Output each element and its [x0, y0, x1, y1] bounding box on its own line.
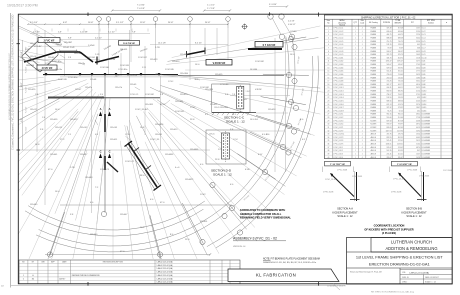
svg-text:13: 13: [328, 67, 330, 69]
svg-text:A: A: [100, 107, 102, 111]
svg-text:1 FVC_D1-B4: 1 FVC_D1-B4: [333, 67, 343, 69]
svg-text:3'-0: 3'-0: [100, 94, 103, 96]
svg-text:16'-8: 16'-8: [140, 127, 144, 129]
svg-text:1/2 AMBUL 1 1/2x0.97: 1/2 AMBUL 1 1/2x0.97: [327, 285, 346, 288]
svg-text:362.3: 362.3: [416, 74, 420, 76]
svg-text:1 FVC_D1-B 3: 1 FVC_D1-B 3: [333, 94, 343, 96]
svg-text:139-013: 139-013: [180, 94, 188, 96]
svg-text:549.07: 549.07: [398, 64, 403, 66]
svg-text:13'-8": 13'-8": [140, 22, 146, 24]
svg-text:2'-5: 2'-5: [68, 134, 71, 136]
svg-text:DATE: 09/18/2017: DATE: 09/18/2017: [425, 276, 439, 279]
svg-text:1 FVC: 1 FVC: [45, 63, 51, 65]
svg-text:424.3: 424.3: [416, 101, 420, 103]
svg-text:1 FVC_D1-P3: 1 FVC_D1-P3: [333, 137, 343, 139]
svg-text:CHKD:: CHKD:: [402, 281, 408, 283]
svg-text:16: 16: [328, 77, 330, 79]
svg-text:235.4: 235.4: [416, 134, 420, 136]
svg-text:V-FCW: V-FCW: [255, 89, 262, 91]
svg-text:10/31/2017 3:00 PM: 10/31/2017 3:00 PM: [7, 4, 38, 8]
svg-text:1: 1: [362, 120, 363, 122]
svg-text:379.1: 379.1: [416, 94, 420, 96]
svg-text:128.15: 128.15: [387, 44, 392, 46]
svg-text:D-B1: D-B1: [422, 61, 426, 63]
svg-text:139-0865: 139-0865: [220, 107, 228, 109]
svg-text:SECTION A-A: SECTION A-A: [337, 208, 353, 211]
svg-text:24'-8": 24'-8": [205, 22, 211, 24]
svg-text:1: 1: [355, 38, 356, 40]
svg-text:10 8 7/8 VIF: 10 8 7/8 VIF: [123, 43, 136, 45]
svg-text:GENERAL CONTRACTOR ON ALL: GENERAL CONTRACTOR ON ALL: [240, 212, 282, 216]
svg-text:SCALE 1 : 12: SCALE 1 : 12: [226, 120, 245, 124]
svg-text:1 FVC_D1-B9: 1 FVC_D1-B9: [333, 84, 343, 86]
svg-text:5'-8": 5'-8": [21, 118, 23, 122]
svg-text:1: 1: [362, 154, 363, 156]
svg-text:807.58: 807.58: [387, 120, 392, 122]
svg-text:KICKER: KICKER: [370, 124, 377, 126]
svg-text:3'-1 1/2": 3'-1 1/2": [108, 32, 115, 34]
svg-text:1'-9 13/32" VIF: 1'-9 13/32" VIF: [397, 164, 412, 166]
svg-text:758.27: 758.27: [398, 94, 403, 96]
svg-text:139-011: 139-011: [110, 139, 118, 141]
svg-text:1: 1: [328, 28, 329, 30]
svg-text:WEIGHT: WEIGHT: [395, 22, 402, 24]
svg-text:ERECTION DRAWING-D1-02-GA1: ERECTION DRAWING-D1-02-GA1: [369, 261, 430, 266]
svg-text:1 FVC_D1-B1: 1 FVC_D1-B1: [333, 57, 343, 59]
svg-text:VERSION: 04: VERSION: 04: [233, 246, 246, 248]
svg-text:34: 34: [328, 137, 330, 139]
svg-text:64.1: 64.1: [417, 44, 420, 46]
svg-text:D-B4: D-B4: [422, 71, 426, 73]
svg-text:929.92: 929.92: [398, 67, 403, 69]
svg-text:962.77: 962.77: [387, 84, 392, 86]
svg-text:1 FC 20/08: 1 FC 20/08: [443, 170, 452, 172]
svg-text:27: 27: [328, 114, 330, 116]
svg-text:39: 39: [328, 154, 330, 156]
svg-text:REVISED PER FIELD DIMENSIONS: REVISED PER FIELD DIMENSIONS: [72, 275, 101, 277]
svg-text:5'-8: 5'-8: [68, 57, 71, 59]
svg-text:337.4: 337.4: [416, 104, 420, 106]
svg-text:1: 1: [355, 61, 356, 63]
svg-text:604.11: 604.11: [387, 87, 392, 89]
svg-text:4: 4: [362, 38, 363, 40]
svg-text:1 FVC_D1-B4: 1 FVC_D1-B4: [135, 109, 148, 111]
svg-text:D-B10: D-B10: [422, 91, 427, 93]
svg-text:4: 4: [362, 127, 363, 129]
svg-text:604.11: 604.11: [398, 87, 403, 89]
svg-text:1'-10 7/32" VIF: 1'-10 7/32" VIF: [330, 164, 345, 166]
svg-text:139-05: 139-05: [63, 47, 70, 49]
svg-text:674.74: 674.74: [387, 104, 392, 106]
svg-text:139-047: 139-047: [120, 214, 128, 216]
svg-text:161.35: 161.35: [398, 150, 403, 152]
svg-text:285.67: 285.67: [387, 157, 392, 159]
svg-text:A: A: [109, 107, 111, 111]
svg-text:1 FVC-B7: 1 FVC-B7: [138, 57, 148, 59]
svg-text:0 7 1/8 VIF: 0 7 1/8 VIF: [263, 43, 276, 47]
svg-text:481.4: 481.4: [416, 84, 420, 86]
svg-text:307.48: 307.48: [387, 28, 392, 30]
svg-text:NOTE: FIT BEARING PLATE PLACEM: NOTE: FIT BEARING PLATE PLACEMENT SEE BE…: [263, 258, 320, 261]
svg-text:5: 5: [328, 41, 329, 43]
svg-text:1 FVC_D1: 1 FVC_D1: [150, 139, 160, 141]
svg-text:D-B9: D-B9: [422, 87, 426, 89]
svg-text:25: 25: [328, 107, 330, 109]
svg-text:1: 1: [23, 275, 24, 277]
svg-text:1095.47: 1095.47: [397, 61, 403, 63]
svg-text:470.76: 470.76: [387, 134, 392, 136]
svg-text:1-1/2x8: 1-1/2x8: [88, 45, 94, 47]
svg-text:DWN: KL: DWN: KL: [402, 277, 409, 279]
svg-text:37: 37: [328, 147, 330, 149]
svg-text:302.1: 302.1: [416, 87, 420, 89]
svg-text:974.02: 974.02: [387, 147, 392, 149]
svg-text:SECTION B-B: SECTION B-B: [406, 208, 422, 211]
svg-text:D-C8: D-C8: [422, 51, 426, 53]
svg-text:1 FVC_D1-P1: 1 FVC_D1-P1: [333, 127, 343, 129]
svg-text:D-B5: D-B5: [422, 74, 426, 76]
svg-text:108.3: 108.3: [416, 77, 420, 79]
svg-text:1095.47: 1095.47: [386, 61, 392, 63]
svg-text:D-B15: D-B15: [422, 107, 427, 109]
svg-text:1 FVC_D1-K1: 1 FVC_D1-K1: [333, 114, 343, 116]
svg-text:444.75: 444.75: [387, 34, 392, 36]
svg-text:139-061: 139-061: [80, 127, 87, 129]
svg-text:SCALE 1 : 12: SCALE 1 : 12: [213, 173, 232, 177]
svg-text:2 FVC VIF: 2 FVC VIF: [44, 41, 55, 43]
svg-text:9: 9: [328, 54, 329, 56]
svg-text:892.95: 892.95: [387, 137, 392, 139]
svg-text:4'-2 1/2": 4'-2 1/2": [95, 38, 102, 40]
svg-text:303.70: 303.70: [387, 57, 392, 59]
svg-text:1: 1: [362, 74, 363, 76]
svg-text:7'-2 1/4": 7'-2 1/4": [26, 106, 28, 113]
svg-text:373.32: 373.32: [387, 107, 392, 109]
svg-text:555.41: 555.41: [387, 71, 392, 73]
svg-text:14: 14: [328, 71, 330, 73]
svg-text:1 FVC_D1-P2: 1 FVC_D1-P2: [333, 130, 343, 132]
svg-text:1: 1: [355, 34, 356, 36]
svg-text:1: 1: [355, 67, 356, 69]
svg-text:5'-3 3/4": 5'-3 3/4": [269, 4, 277, 6]
svg-text:973.97: 973.97: [398, 124, 403, 126]
svg-text:261.2: 261.2: [416, 140, 420, 142]
svg-text:C:\Users\KL\Documents\1 FVC_01: C:\Users\KL\Documents\1 FVC_01-02-GA1 ER…: [12, 14, 15, 150]
svg-text:7'-0 1/8": 7'-0 1/8": [137, 8, 145, 10]
svg-text:1: 1: [355, 127, 356, 129]
svg-text:1'-8: 1'-8: [42, 117, 45, 119]
svg-text:720.26: 720.26: [387, 81, 392, 83]
svg-text:2'-7 3/4": 2'-7 3/4": [33, 32, 40, 34]
svg-text:18: 18: [328, 84, 330, 86]
svg-text:1 FVC_D1-C1: 1 FVC_D1-C1: [333, 28, 343, 30]
svg-text:403.8: 403.8: [416, 120, 420, 122]
svg-text:35: 35: [328, 140, 330, 142]
svg-text:33: 33: [328, 134, 330, 136]
svg-text:10: 10: [328, 57, 330, 59]
svg-text:930.97: 930.97: [387, 51, 392, 53]
svg-text:D-B6: D-B6: [422, 77, 426, 79]
svg-text:1 FVC_D1-B5: 1 FVC_D1-B5: [333, 71, 343, 73]
svg-text:329.73: 329.73: [398, 54, 403, 56]
svg-text:92.25: 92.25: [387, 110, 391, 112]
svg-text:551.66: 551.66: [398, 117, 403, 119]
svg-text:1: 1: [355, 114, 356, 116]
svg-text:KICKER: KICKER: [370, 130, 377, 132]
svg-text:139-06a: 139-06a: [55, 69, 63, 71]
svg-text:487.0: 487.0: [416, 147, 420, 149]
svg-text:329.73: 329.73: [387, 54, 392, 56]
svg-text:1: 1: [355, 84, 356, 86]
svg-text:139-053: 139-053: [268, 109, 276, 111]
svg-text:1 FVC_D16 1: 1 FVC_D16 1: [333, 147, 343, 149]
svg-text:7'-2 1/4": 7'-2 1/4": [26, 46, 28, 53]
svg-text:D1-KHMB8: D1-KHMB8: [422, 154, 430, 156]
svg-text:D1-KHMB8: D1-KHMB8: [422, 127, 430, 129]
svg-text:D1-KHMB8: D1-KHMB8: [422, 120, 430, 122]
svg-text:139-059: 139-059: [55, 127, 62, 129]
svg-text:ASSEMBLY-3 (FVC_D1 - 02: ASSEMBLY-3 (FVC_D1 - 02: [233, 237, 277, 241]
svg-text:D-B2: D-B2: [422, 64, 426, 66]
svg-text:1033.01: 1033.01: [386, 144, 392, 146]
svg-text:8'-0 1/4": 8'-0 1/4": [195, 43, 202, 45]
svg-text:7'-8": 7'-8": [132, 32, 136, 34]
svg-text:1: 1: [362, 81, 363, 83]
svg-text:1: 1: [355, 71, 356, 73]
svg-text:1: 1: [362, 140, 363, 142]
svg-text:D-C10: D-C10: [422, 57, 427, 59]
svg-text:7'-2 1/4": 7'-2 1/4": [26, 126, 28, 133]
svg-text:830.90: 830.90: [387, 91, 392, 93]
svg-text:1: 1: [355, 144, 356, 146]
svg-text:1: 1: [355, 28, 356, 30]
svg-text:1: 1: [362, 91, 363, 93]
svg-text:46.1: 46.1: [417, 110, 420, 112]
svg-text:1: 1: [362, 61, 363, 63]
svg-text:D-C4: D-C4: [422, 38, 426, 40]
svg-text:1 FVC_D1-K1: 1 FVC_D1-K1: [325, 179, 336, 181]
svg-text:2: 2: [328, 31, 329, 33]
svg-text:D-C7: D-C7: [422, 48, 426, 50]
svg-text:139-033: 139-033: [172, 61, 180, 63]
svg-text:38: 38: [328, 150, 330, 152]
svg-text:1 FVC_D16 4: 1 FVC_D16 4: [333, 157, 343, 159]
svg-text:9'-8": 9'-8": [68, 38, 72, 40]
svg-text:222.4: 222.4: [416, 34, 420, 36]
svg-text:SCALE 1 : 12: SCALE 1 : 12: [337, 215, 353, 218]
svg-text:16'-8": 16'-8": [88, 22, 94, 24]
svg-text:1 FVC-C2: 1 FVC-C2: [125, 161, 135, 163]
svg-text:139-0851: 139-0851: [155, 124, 164, 126]
svg-text:4: 4: [362, 87, 363, 89]
svg-text:1017.94: 1017.94: [386, 130, 392, 132]
svg-text:4: 4: [362, 77, 363, 79]
svg-text:1 FVC_D1-B 6: 1 FVC_D1-B 6: [333, 104, 343, 106]
svg-text:139-0847: 139-0847: [64, 42, 72, 44]
svg-text:522.41: 522.41: [387, 140, 392, 142]
svg-text:LUTHERAN CHURCH: LUTHERAN CHURCH: [391, 240, 432, 245]
svg-text:10'-5 1/8": 10'-5 1/8": [158, 43, 166, 45]
svg-text:6: 6: [328, 44, 329, 46]
svg-text:1 FVC_D1-B 5: 1 FVC_D1-B 5: [333, 101, 343, 103]
svg-text:73.69: 73.69: [387, 48, 391, 50]
svg-text:1: 1: [362, 134, 363, 136]
svg-text:1 FVC_D1-B 8: 1 FVC_D1-B 8: [333, 110, 343, 112]
svg-text:1 FVC-B2: 1 FVC-B2: [145, 94, 155, 96]
svg-text:1 FVC_D1-C2: 1 FVC_D1-C2: [333, 31, 343, 33]
svg-text:688.08: 688.08: [398, 38, 403, 40]
svg-text:1 FVC-B4: 1 FVC-B4: [86, 57, 96, 59]
svg-text:1 FVC_D16 3: 1 FVC_D16 3: [333, 154, 343, 156]
svg-text:1: 1: [362, 130, 363, 132]
svg-text:2'-5 1/4": 2'-5 1/4": [30, 22, 38, 24]
svg-text:1 FVC_D1-C5: 1 FVC_D1-C5: [333, 41, 343, 43]
svg-text:1 FVC_D1-K2: 1 FVC_D1-K2: [333, 117, 343, 119]
svg-text:11: 11: [328, 61, 330, 63]
svg-text:1: 1: [362, 114, 363, 116]
svg-text:277.7: 277.7: [416, 71, 420, 73]
svg-text:1: 1: [355, 140, 356, 142]
svg-text:487.0: 487.0: [416, 124, 420, 126]
svg-text:Code: Code: [360, 22, 364, 24]
svg-text:D-C1: D-C1: [422, 28, 426, 30]
svg-text:22: 22: [328, 97, 330, 99]
svg-text:1 FVC-C3: 1 FVC-C3: [100, 169, 110, 171]
svg-text:6'-8: 6'-8: [95, 134, 98, 136]
svg-text:1: 1: [362, 124, 363, 126]
svg-text:465.5: 465.5: [416, 51, 420, 53]
svg-text:1 FVC: 1 FVC: [246, 91, 252, 93]
svg-text:139-055: 139-055: [28, 89, 36, 91]
svg-text:4: 4: [362, 48, 363, 50]
svg-text:24: 24: [328, 104, 330, 106]
svg-text:164.9: 164.9: [416, 54, 420, 56]
svg-text:1 FVC-B2: 1 FVC-B2: [255, 61, 265, 63]
svg-text:GE Coating: GE Coating: [369, 21, 378, 24]
svg-text:24'-8": 24'-8": [168, 22, 174, 24]
svg-text:36.8: 36.8: [417, 48, 420, 50]
svg-text:139-0861: 139-0861: [190, 149, 199, 151]
svg-text:1: 1: [362, 34, 363, 36]
svg-text:D-C9: D-C9: [422, 54, 426, 56]
svg-text:D1-KHMB8: D1-KHMB8: [422, 150, 430, 152]
svg-text:WT: WT: [411, 22, 414, 24]
svg-text:SCALE 1 : 12: SCALE 1 : 12: [406, 215, 422, 218]
svg-text:C: C: [109, 150, 111, 154]
svg-text:1 FVC 20/08: 1 FVC 20/08: [337, 170, 347, 172]
svg-text:1: 1: [362, 84, 363, 86]
svg-text:929.92: 929.92: [387, 67, 392, 69]
svg-text:444.75: 444.75: [398, 34, 403, 36]
svg-text:186.7: 186.7: [416, 107, 420, 109]
svg-text:139-0855: 139-0855: [145, 104, 153, 106]
svg-text:274.5: 274.5: [416, 64, 420, 66]
svg-text:COORDINATE LOCATION: COORDINATE LOCATION: [374, 224, 405, 228]
svg-text:1017.94: 1017.94: [397, 130, 403, 132]
svg-text:4: 4: [328, 38, 329, 40]
svg-text:1: 1: [355, 87, 356, 89]
svg-text:D-B8: D-B8: [422, 84, 426, 86]
svg-text:4: 4: [362, 157, 363, 159]
svg-text:688.08: 688.08: [387, 38, 392, 40]
svg-text:4 FVC VIF: 4 FVC VIF: [42, 67, 53, 70]
svg-text:555.41: 555.41: [398, 71, 403, 73]
svg-text:720.26: 720.26: [398, 81, 403, 83]
svg-text:139-0861: 139-0861: [165, 154, 174, 156]
svg-text:415.4: 415.4: [416, 91, 420, 93]
svg-text:1: 1: [362, 64, 363, 66]
svg-text:15: 15: [328, 74, 330, 76]
svg-text:465.0: 465.0: [416, 67, 420, 69]
svg-text:4: 4: [362, 57, 363, 59]
svg-text:1: 1: [362, 31, 363, 33]
svg-text:1: 1: [355, 134, 356, 136]
svg-text:26: 26: [328, 110, 330, 112]
svg-text:DRAWINGS D1-B1, B4, B5, B6, B7: DRAWINGS D1-B1, B4, B5, B6, B7, B-3, B10…: [263, 261, 317, 264]
svg-text:40: 40: [328, 157, 330, 159]
svg-text:758.27: 758.27: [387, 94, 392, 96]
svg-text:3/4: 3/4: [32, 278, 34, 280]
svg-text:1: 1: [362, 144, 363, 146]
svg-text:V-FCW VIF: V-FCW VIF: [213, 62, 226, 65]
svg-text:303.70: 303.70: [398, 57, 403, 59]
svg-text:1: 1: [362, 94, 363, 96]
svg-text:D1-KHMB8: D1-KHMB8: [422, 140, 430, 142]
svg-text:1 FVC_D1-B6: 1 FVC_D1-B6: [333, 74, 343, 76]
svg-text:JOB:: JOB:: [402, 272, 406, 274]
svg-text:21: 21: [328, 94, 330, 96]
svg-text:100.7: 100.7: [416, 154, 420, 156]
svg-text:549.07: 549.07: [387, 64, 392, 66]
svg-text:5'-11 3/8": 5'-11 3/8": [80, 32, 88, 34]
svg-text:161.35: 161.35: [387, 150, 392, 152]
svg-text:1: 1: [355, 147, 356, 149]
svg-text:30: 30: [328, 124, 330, 126]
svg-text:1: 1: [355, 120, 356, 122]
svg-text:43'-07: 43'-07: [160, 104, 166, 106]
svg-text:1: 1: [355, 41, 356, 43]
svg-text:139-063: 139-063: [110, 127, 117, 129]
svg-text:139-049: 139-049: [90, 234, 98, 236]
svg-text:1: 1: [355, 157, 356, 159]
svg-text:1 FVC 20/03: 1 FVC 20/03: [352, 176, 362, 178]
svg-text:8: 8: [328, 51, 329, 53]
svg-text:1: 1: [362, 44, 363, 46]
svg-text:139-017: 139-017: [80, 154, 88, 156]
svg-text:139-057: 139-057: [30, 109, 37, 111]
svg-text:17: 17: [328, 81, 330, 83]
svg-text:D-B12: D-B12: [422, 97, 427, 99]
svg-text:139-05: 139-05: [214, 107, 220, 109]
svg-text:1: 1: [355, 104, 356, 106]
svg-text:(4 PLACES): (4 PLACES): [382, 231, 396, 235]
svg-text:10/27/17: 10/27/17: [59, 278, 65, 280]
svg-text:1: 1: [355, 107, 356, 109]
svg-text:522.41: 522.41: [398, 140, 403, 142]
svg-text:REVISION DESCRIPTION: REVISION DESCRIPTION: [103, 261, 124, 263]
svg-text:29: 29: [328, 120, 330, 122]
svg-text:LL: LL: [32, 275, 34, 277]
svg-text:626.00: 626.00: [398, 31, 403, 33]
svg-text:126.59: 126.59: [387, 97, 392, 99]
svg-text:1 FVC 20/03: 1 FVC 20/03: [419, 176, 429, 178]
svg-text:344.0: 344.0: [416, 38, 420, 40]
svg-text:139-043: 139-043: [85, 177, 93, 179]
svg-text:139-07a: 139-07a: [85, 87, 93, 89]
svg-text:1 FVC_D1-P4: 1 FVC_D1-P4: [333, 140, 343, 142]
svg-text:930.97: 930.97: [398, 51, 403, 53]
svg-text:201.41: 201.41: [398, 154, 403, 156]
